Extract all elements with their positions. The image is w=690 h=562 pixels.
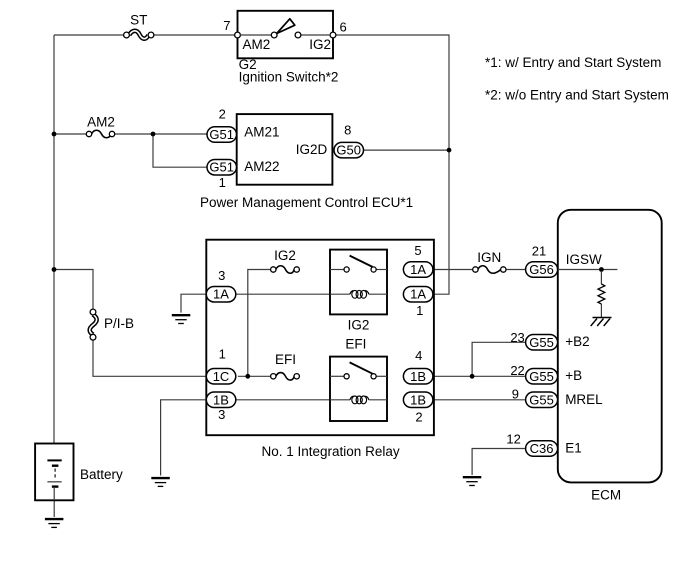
ECM box: [558, 210, 662, 483]
pin 6 terminal: [330, 32, 336, 38]
switch blade: [350, 256, 373, 267]
ignition switch G2: [235, 11, 336, 59]
contact left: [344, 374, 349, 379]
svg-text:*1: w/ Entry and Start System: *1: w/ Entry and Start System: [485, 55, 661, 70]
svg-text:IGN: IGN: [477, 250, 501, 265]
wire pin7 to AM2 contact: [240, 34, 271, 36]
wire EFI coil to 1B pin 2: [387, 399, 403, 401]
battery cell dashed link: [54, 469, 56, 481]
wire 1A pin3 to coil (redraw inside box): [236, 293, 330, 295]
battery plate short top: [52, 465, 59, 467]
svg-text:1A: 1A: [213, 287, 229, 302]
wire ST fuse to ignition switch pin 7: [154, 34, 236, 36]
ground for battery: [45, 519, 64, 527]
svg-text:ECM: ECM: [591, 487, 621, 502]
battery plate short bottom: [52, 485, 59, 487]
wire 1B pin 3 to EFI coil: [236, 399, 330, 401]
wire ignition switch pin 6 to right vertical drop to relay 1A pin 1: [336, 35, 449, 294]
ground for relay 1B pin 3: [151, 478, 170, 486]
relay terminal 1A pin 1: [403, 286, 433, 302]
junction +B/+B2: [470, 374, 475, 379]
svg-text:E1: E1: [565, 441, 582, 456]
wire ECM internal IGSW: [558, 269, 617, 271]
junction AM2/G51 branch: [151, 132, 156, 137]
svg-text:G51: G51: [209, 160, 234, 175]
svg-text:G55: G55: [529, 392, 554, 407]
power management control ECU: [237, 114, 333, 185]
junction bus/AM2: [52, 132, 57, 137]
svg-text:1C: 1C: [213, 369, 230, 384]
svg-text:1A: 1A: [410, 287, 426, 302]
wire battery top lead: [53, 444, 55, 460]
svg-text:Ignition Switch*2: Ignition Switch*2: [239, 70, 339, 85]
svg-text:8: 8: [344, 123, 351, 138]
switch contact IG2: [295, 32, 301, 38]
svg-text:IG2: IG2: [348, 318, 370, 333]
wire relay 1A pin 3 to IG2 coil: [236, 293, 330, 295]
wire battery to ground: [53, 500, 55, 517]
connector G55 pin 22: [526, 369, 558, 385]
relay terminal 1A pin 3: [206, 286, 236, 302]
connector C36 pin 12: [526, 441, 558, 457]
fusible link P/I-B: [90, 309, 97, 340]
junction bus/P-I-B: [52, 267, 57, 272]
svg-text:IG2D: IG2D: [296, 142, 328, 157]
svg-text:Battery: Battery: [80, 467, 123, 482]
svg-text:1B: 1B: [213, 392, 229, 407]
connector G55 pin 9: [526, 392, 558, 408]
wire contact stubs: [330, 269, 344, 271]
wire 1A pin 5 to IGN fuse: [433, 269, 473, 271]
svg-text:C36: C36: [530, 441, 554, 456]
connector G50 pin 8: [334, 142, 364, 158]
svg-text:5: 5: [414, 243, 421, 258]
wire branch to G51 pin 1: [153, 134, 207, 167]
pin 7 terminal: [235, 32, 241, 38]
wire ECM internal IGSW (redraw): [559, 269, 618, 271]
wire contact stubs: [330, 375, 344, 377]
svg-text:22: 22: [510, 363, 524, 378]
wire bus to AM2 fuse: [54, 133, 87, 135]
wire 1C to EFI fuse (redraw inside box): [238, 375, 271, 377]
svg-text:G55: G55: [529, 369, 554, 384]
fuse AM2: [86, 130, 114, 138]
contact right: [371, 374, 376, 379]
svg-text:7: 7: [223, 18, 230, 33]
svg-text:IGSW: IGSW: [566, 252, 602, 267]
switch contact AM2: [271, 32, 277, 38]
ground for ECM E1: [463, 477, 482, 485]
svg-text:1: 1: [219, 346, 226, 361]
svg-text:+B2: +B2: [565, 334, 589, 349]
svg-text:1A: 1A: [410, 262, 426, 277]
svg-text:1: 1: [416, 303, 423, 318]
svg-text:P/I-B: P/I-B: [104, 316, 134, 331]
relay IG2 inner box: [330, 250, 387, 315]
svg-text:23: 23: [510, 330, 524, 345]
coil EFI: [350, 396, 369, 404]
connector G51 pin 1: [207, 159, 237, 175]
relay terminal 1B pin 2: [403, 392, 433, 408]
junction G50/pin6 drop: [447, 148, 452, 153]
svg-text:MREL: MREL: [565, 392, 603, 407]
connector G51 pin 2: [207, 127, 237, 143]
svg-text:AM21: AM21: [244, 125, 279, 140]
wire relay internal vertical (redraw inside box): [248, 270, 271, 377]
svg-text:2: 2: [415, 409, 422, 424]
wire 1B3 to EFI coil (redraw inside box): [236, 399, 330, 401]
battery plate long top: [47, 459, 61, 461]
relay terminal 1C pin 1: [206, 369, 236, 385]
svg-text:1B: 1B: [410, 392, 426, 407]
wire IG2 relay to 1A pin 5: [387, 269, 403, 271]
junction IGSW/resistor (redraw): [599, 267, 604, 272]
junction IGSW/resistor: [599, 267, 604, 272]
relay terminal 1A pin 5: [403, 262, 433, 278]
wire C36 E1 to ground: [472, 449, 525, 476]
relay terminal 1B pin 3: [206, 392, 236, 408]
svg-text:12: 12: [506, 432, 520, 447]
wire IG2 coil to 1A pin 1: [387, 293, 403, 295]
battery plate long bottom: [47, 481, 61, 483]
wire 1B pin 4 to G55 pin 22: [433, 375, 526, 377]
junction 1C/internal vertical (redraw): [245, 374, 250, 379]
connector G55 pin 23: [526, 335, 558, 351]
wire bus to P/I-B fusible link: [54, 270, 93, 310]
svg-text:ST: ST: [130, 13, 147, 28]
svg-text:IG2: IG2: [309, 37, 331, 52]
relay terminal 1B pin 4: [403, 369, 433, 385]
connector G56 pin 21: [526, 262, 558, 278]
junction 1C/internal vertical: [245, 374, 250, 379]
resistor R pull-down: [598, 284, 605, 304]
wire left battery bus: [53, 35, 55, 444]
battery: [35, 444, 73, 501]
svg-text:Power Management Control ECU*1: Power Management Control ECU*1: [200, 195, 413, 210]
svg-text:IG2: IG2: [274, 248, 296, 263]
svg-text:No. 1 Integration Relay: No. 1 Integration Relay: [262, 444, 400, 459]
wire relay internal vertical 1C to IG2 fuse: [248, 270, 271, 377]
svg-text:AM2: AM2: [243, 37, 271, 52]
svg-text:G56: G56: [529, 262, 554, 277]
wire 1B pin 2 to G55 pin 9 MREL: [433, 399, 526, 401]
wire 1C to EFI fuse: [238, 375, 271, 377]
svg-text:*2: w/o Entry and Start System: *2: w/o Entry and Start System: [485, 88, 669, 103]
wire G55 pin 23 +B2 branch: [472, 342, 525, 376]
wire top bus to ST fuse: [54, 34, 124, 36]
relay No.1 integration relay box: [206, 240, 434, 436]
svg-text:G55: G55: [529, 335, 554, 350]
svg-text:G50: G50: [336, 143, 361, 158]
wire EFI relay to 1B pin 4: [387, 375, 403, 377]
svg-text:1: 1: [219, 175, 226, 190]
wire G50 pin 8 to vertical drop: [364, 149, 450, 151]
contact right: [371, 267, 376, 272]
contact left: [344, 267, 349, 272]
fuse EFI: [271, 373, 300, 381]
switch blade: [350, 362, 373, 373]
wire ECM resistor leads: [600, 270, 602, 285]
wire AM2 fuse to G51 pin 2: [114, 133, 207, 135]
resistor lead top: [600, 271, 602, 284]
relay EFI inner box: [330, 357, 387, 421]
svg-text:G51: G51: [209, 127, 234, 142]
wire P/I-B fusible link to relay 1C: [93, 340, 206, 377]
svg-text:4: 4: [415, 348, 422, 363]
wire 1B pin 3 to ground: [161, 400, 207, 476]
coil IG2: [350, 290, 369, 298]
svg-text:2: 2: [219, 107, 226, 122]
svg-text:+B: +B: [565, 368, 582, 383]
svg-text:1B: 1B: [410, 369, 426, 384]
svg-text:3: 3: [218, 407, 225, 422]
coil wire: [330, 399, 387, 401]
fuse IG2: [271, 266, 300, 274]
svg-text:9: 9: [512, 387, 519, 402]
coil wire: [330, 293, 387, 295]
wire EFI fuse to EFI relay contact: [299, 375, 330, 377]
svg-text:AM2: AM2: [87, 114, 115, 129]
ground for relay 1A pin 3: [172, 315, 191, 323]
svg-text:3: 3: [218, 268, 225, 283]
svg-text:EFI: EFI: [275, 352, 296, 367]
battery bottom lead: [53, 488, 55, 501]
svg-text:6: 6: [340, 20, 347, 35]
wire relay 1A pin 3 to ground: [181, 294, 206, 312]
chassis ground ECM: [591, 318, 612, 327]
wire IGN fuse to G56: [506, 269, 526, 271]
wire IG2 fuse to IG2 relay contact: [299, 269, 330, 271]
fusible link ST: [124, 31, 154, 39]
wire IG2 contact to pin6: [301, 34, 331, 36]
resistor lead bottom: [600, 304, 602, 317]
switch lever: [277, 19, 295, 34]
svg-text:EFI: EFI: [345, 337, 366, 352]
svg-text:21: 21: [532, 244, 546, 259]
svg-text:AM22: AM22: [244, 159, 279, 174]
fuse IGN: [473, 266, 506, 274]
